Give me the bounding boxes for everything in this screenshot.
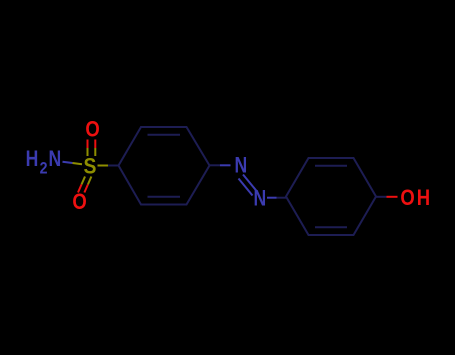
svg-text:N: N — [235, 154, 248, 178]
svg-text:H: H — [417, 187, 430, 211]
label N1 (azo nitrogen) — [235, 154, 248, 178]
svg-text:S: S — [84, 154, 97, 178]
ring 2 double bond bottom — [315, 226, 347, 228]
bond ring 1 to N1 (navy half) — [210, 164, 221, 166]
azo N=N double bond — [239, 175, 258, 196]
bond H2N to S (olive half) — [73, 163, 83, 164]
svg-text:O: O — [85, 118, 99, 142]
S=O bottom double bond (olive halves) — [82, 177, 92, 185]
bond S to ring 1 (navy half) — [108, 165, 119, 167]
ring 2 double bond top — [315, 165, 347, 167]
svg-text:H: H — [26, 147, 39, 171]
bond ring 2 to OH (navy half) — [376, 196, 387, 198]
benzene ring 1 (sulfonamide ring) — [119, 127, 210, 205]
label O (top sulfonyl oxygen) — [85, 118, 99, 142]
bond ring 1 to N1 (blue half) — [220, 164, 231, 166]
S=O bottom double bond (red halves) — [78, 185, 88, 193]
bond ring 2 to OH (red half) — [387, 196, 398, 198]
svg-text:N: N — [253, 187, 266, 211]
svg-text:2: 2 — [40, 159, 48, 177]
bond N2 to ring 2 (navy half) — [277, 197, 287, 199]
S=O top double bond (olive halves) — [88, 148, 96, 156]
label O (bottom sulfonyl oxygen) — [72, 191, 86, 215]
label N2 (azo nitrogen) — [253, 187, 266, 211]
label H2N (amine) — [26, 147, 62, 177]
svg-text:O: O — [400, 187, 414, 211]
ring 1 double bond bottom — [148, 196, 181, 198]
label S (sulfur) — [84, 154, 97, 178]
svg-text:O: O — [72, 191, 86, 215]
svg-text:N: N — [48, 147, 61, 171]
S=O top double bond (red halves) — [88, 140, 96, 149]
bond S to ring 1 (olive half) — [98, 165, 109, 167]
bond N2 to ring 2 (blue half) — [267, 197, 277, 199]
label OH (phenol) — [400, 187, 414, 211]
benzene ring 2 (phenol ring) — [286, 158, 376, 235]
bond H2N to S (blue half) — [63, 162, 73, 163]
ring 1 double bond top — [148, 134, 181, 136]
